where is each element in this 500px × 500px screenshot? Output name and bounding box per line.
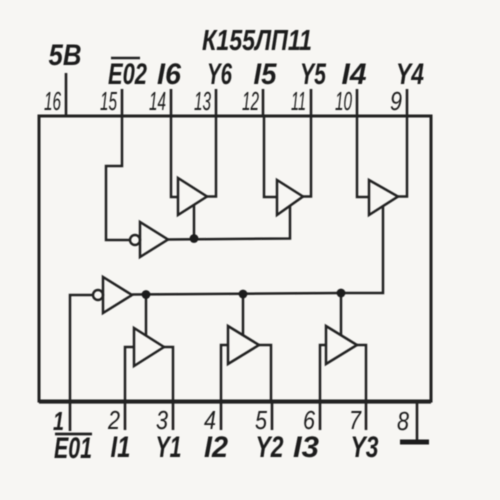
wire: pin12 I5 to buffer B input [264,116,277,197]
svg-text:8: 8 [397,406,409,436]
buffer D (I1->Y1) [134,328,164,366]
buffer A (I6->Y6) [178,178,207,215]
svg-text:I5: I5 [254,58,278,91]
svg-text:I4: I4 [342,58,367,91]
pin 4 stub [220,401,223,430]
wire: buffer D enable drop [145,295,148,337]
inverter U1B (enable E01) with input bubble [93,290,103,300]
pin 3 stub [172,401,175,430]
buffer B (I5->Y5) [277,180,303,215]
wire: buffer D output to pin3 Y1 [164,347,173,401]
wire: enable net EN2 from inverter output to buffers A,B [168,206,290,240]
wire: pin4 I2 to buffer E input [221,345,228,401]
svg-text:Y2: Y2 [256,431,284,464]
wire: pin15 E02 to inverter U1A input (jog) [106,116,130,240]
inverter U1A (enable E02) with input bubble [130,235,140,245]
svg-text:I1: I1 [111,431,131,464]
wire: buffer E output to pin5 Y2 [259,345,271,401]
svg-text:Y1: Y1 [156,431,182,464]
svg-text:Е01: Е01 [54,432,92,465]
pin 10 stub [356,89,359,116]
wire: buffer E enable drop [242,294,245,336]
node: junction dot EN1 at buffer E [239,290,248,299]
svg-text:16: 16 [44,86,61,116]
buffer E (I2->Y2) [228,326,259,364]
wire: pin1 E01 to inverter U1B input [70,295,93,401]
pin 6 stub [319,401,322,430]
svg-text:Y6: Y6 [207,58,232,91]
buffer C (I4->Y4) [369,180,398,215]
pin 9 stub [406,89,409,116]
wire: buffer B output to pin11 Y5 [303,116,311,197]
pin 7 stub [365,401,368,430]
pin 14 stub [170,89,173,116]
pin 16 (Vcc 5V) stub [65,73,68,116]
wire: buffer F output to pin7 Y3 [357,345,366,401]
svg-text:К155ЛП11: К155ЛП11 [202,25,312,57]
pin 1 stub [69,401,72,431]
svg-text:Y4: Y4 [396,58,424,91]
wire: enable net EN1 from inverter output to buffers D,E,F [132,293,341,295]
IC body outline U1 К155ЛП11 [39,116,431,401]
node: junction dot EN2 at buffer A [190,234,199,243]
pin 5 stub [271,401,274,430]
wire: pin2 I1 to buffer D input [125,347,134,401]
svg-text:5В: 5В [49,39,82,72]
wire: buffer C output to pin9 Y4 [398,116,407,197]
pin 12 stub [262,89,265,116]
pin 15 stub [121,89,124,116]
wire: pin6 I3 to buffer F input [320,345,326,401]
wire: buffer A enable drop [193,205,196,239]
wire: pin14 I6 to buffer A input [171,116,178,197]
pin 2 stub [124,401,127,430]
buffer F (I3->Y3) [326,326,357,364]
svg-text:I2: I2 [204,431,228,464]
wire: buffer C enable drop to EN1 net [341,207,383,294]
svg-text:Y3: Y3 [351,431,379,464]
pin 8 stub (GND) [416,401,419,441]
svg-text:Y5: Y5 [300,58,327,91]
node: junction dot EN1 at buffer D [142,290,151,299]
wire: pin10 I4 to buffer C input [357,116,369,197]
wire: buffer F enable drop [340,293,343,336]
ground [400,440,429,445]
node: junction dot EN1 at buffer F [337,289,346,298]
svg-text:Е02: Е02 [108,58,147,91]
wire: buffer A output to pin13 Y6 [207,116,216,197]
pin 13 stub [215,89,218,116]
svg-text:I3: I3 [293,431,319,464]
pin 11 stub [310,89,313,116]
svg-text:I6: I6 [157,58,181,91]
